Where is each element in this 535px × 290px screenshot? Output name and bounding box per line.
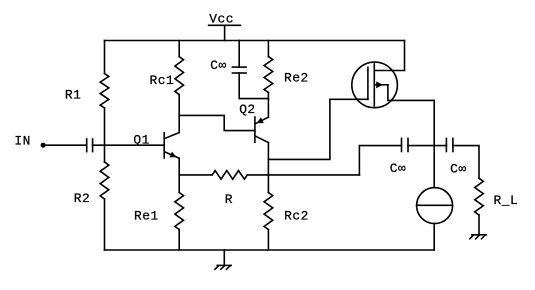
svg-text:Rc2: Rc2 [284,209,309,224]
svg-text:IN: IN [14,133,30,148]
svg-text:Q2: Q2 [239,102,255,117]
svg-text:C∞: C∞ [390,161,406,176]
svg-text:Re2: Re2 [284,71,309,86]
svg-text:Q1: Q1 [133,132,149,147]
svg-text:C∞: C∞ [210,58,226,73]
svg-text:R1: R1 [65,88,81,103]
svg-text:C∞: C∞ [450,162,466,177]
svg-text:Re1: Re1 [134,208,159,223]
svg-text:R_L: R_L [494,193,519,208]
svg-text:Rc1: Rc1 [150,73,175,88]
svg-text:R: R [225,192,233,207]
svg-text:Vcc: Vcc [209,12,234,27]
svg-text:R2: R2 [74,191,90,206]
